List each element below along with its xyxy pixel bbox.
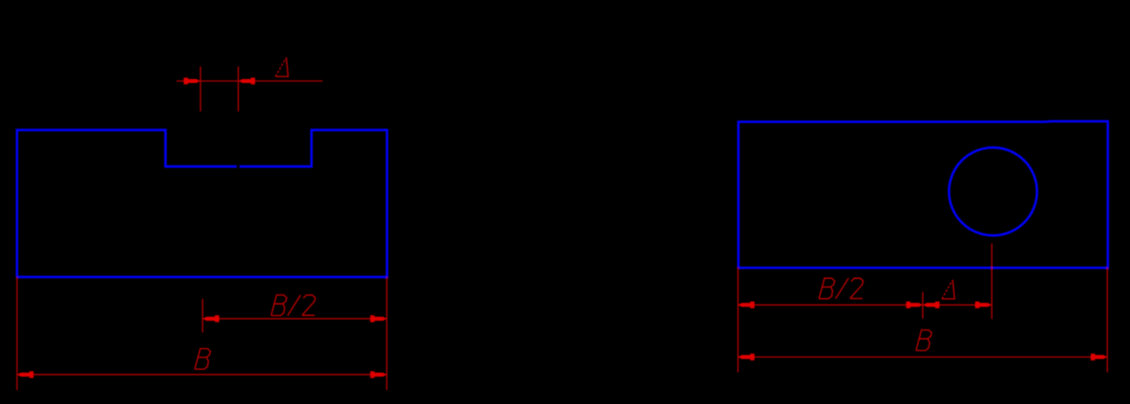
left view: B arrow right-pointing [370, 371, 386, 378]
top dim arrow right-pointing [184, 78, 200, 85]
left view: label B [195, 349, 211, 370]
left view: B/2 arrow left-pointing [203, 315, 219, 322]
left view: B/2 dimension line [203, 318, 387, 320]
left view: right extension line [386, 277, 388, 390]
left view: B arrow left-pointing [17, 371, 33, 378]
right view: B/2 arrow right-pointing [906, 302, 922, 309]
right view: hole center extension line [991, 244, 993, 320]
left view: B/2 arrow right-pointing [370, 315, 386, 322]
right view: label B [916, 330, 932, 351]
left view: label B/2 [271, 295, 315, 316]
right view: left extension line [737, 268, 739, 373]
top dim label delta [276, 58, 289, 77]
right view: delta arrow right-pointing [975, 302, 991, 309]
right view: label B/2 [819, 278, 863, 299]
left view: B dimension line [17, 374, 387, 376]
top dim: extension line at part center [200, 67, 202, 112]
right view: B/2 and delta dimension line [738, 304, 992, 306]
right view hole circle [949, 148, 1037, 236]
left view part outline with top notch [17, 130, 387, 277]
top dim arrow left-pointing [239, 78, 255, 85]
right view: delta arrow left-pointing [923, 302, 939, 309]
right view: B arrow right-pointing [1091, 354, 1107, 361]
right view: B arrow left-pointing [738, 354, 754, 361]
left view: left extension line [16, 277, 18, 390]
right view: B dimension line [738, 356, 1107, 358]
left view: center short extension line [202, 299, 204, 333]
right view: label delta [942, 280, 955, 299]
right view: B/2 arrow left-pointing [738, 302, 754, 309]
right view part outline [738, 121, 1107, 267]
top dim line [177, 80, 323, 82]
right view: part center extension line [922, 292, 924, 319]
top dim: extension line at notch center [237, 67, 239, 112]
right view: right extension line [1106, 268, 1108, 373]
